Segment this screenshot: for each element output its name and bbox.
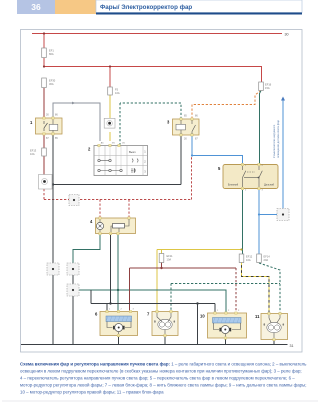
svg-text:Дальний: Дальний xyxy=(264,184,275,187)
svg-text:15A: 15A xyxy=(265,86,270,90)
svg-text:36: 36 xyxy=(31,2,41,12)
svg-text:Схема включения фар и регулято: Схема включения фар и регулятора направл… xyxy=(20,362,307,367)
svg-text:К выключателю наружного: К выключателю наружного xyxy=(272,124,276,158)
svg-text:Фары/ Электрокорректор фар: Фары/ Электрокорректор фар xyxy=(100,4,192,11)
svg-text:10A: 10A xyxy=(246,258,251,262)
svg-text:80A: 80A xyxy=(49,52,54,56)
svg-text:мотор-редуктор регулятора лево: мотор-редуктор регулятора левой фары; 7 … xyxy=(20,383,307,388)
svg-text:EF16: EF16 xyxy=(265,83,272,87)
svg-text:31: 31 xyxy=(290,344,294,348)
svg-text:Выкл: Выкл xyxy=(129,150,136,154)
svg-text:EF11: EF11 xyxy=(167,254,174,258)
svg-text:EF12: EF12 xyxy=(246,255,253,259)
svg-text:освещения датчика света фар: освещения датчика света фар xyxy=(276,120,280,158)
svg-text:EF30: EF30 xyxy=(49,79,56,83)
svg-text:EF13: EF13 xyxy=(30,149,37,153)
svg-text:EF1: EF1 xyxy=(49,49,54,53)
svg-text:освещения в левом подрулевом п: освещения в левом подрулевом переключате… xyxy=(20,369,302,374)
svg-text:11: 11 xyxy=(255,314,260,319)
svg-text:10A: 10A xyxy=(30,152,35,156)
svg-text:4 – переключатель регулятора н: 4 – переключатель регулятора направления… xyxy=(20,376,295,381)
svg-text:10: 10 xyxy=(200,314,205,319)
svg-text:10A: 10A xyxy=(115,91,120,95)
svg-text:10A: 10A xyxy=(167,258,172,262)
svg-text:30: 30 xyxy=(285,33,289,37)
svg-text:20A: 20A xyxy=(264,258,269,262)
svg-text:30A: 30A xyxy=(49,82,54,86)
svg-text:10 – мотор-редуктор регулятора: 10 – мотор-редуктор регулятора правой фа… xyxy=(20,390,164,395)
svg-text:EF14: EF14 xyxy=(264,255,271,259)
svg-text:Ближний: Ближний xyxy=(228,184,239,187)
